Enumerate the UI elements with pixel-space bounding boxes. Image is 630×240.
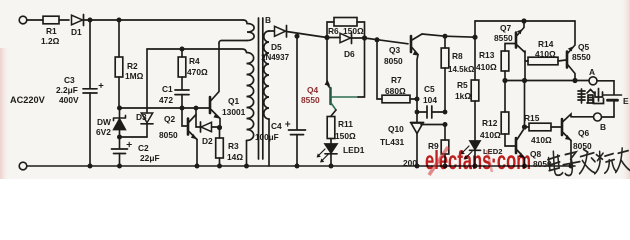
- svg-text:8050: 8050: [159, 130, 178, 140]
- Chinese caption: shao (burn): [594, 150, 617, 173]
- wire: primary tap to Q1 collector: [219, 41, 247, 44]
- shunt regulator Q10 TL431: [411, 112, 446, 166]
- transistor Q2: [188, 108, 197, 166]
- transformer core: [258, 18, 260, 159]
- wire: winding bottom to ground rail: [246, 141, 248, 167]
- svg-text:Q5: Q5: [578, 42, 590, 52]
- wire: positive output rail: [505, 80, 589, 82]
- svg-text:D2: D2: [202, 136, 213, 146]
- wire: A to battery E: [597, 81, 614, 95]
- svg-text:C2: C2: [138, 143, 149, 153]
- svg-text:R15: R15: [524, 113, 540, 123]
- svg-text:LED1: LED1: [343, 145, 365, 155]
- wire: [120, 136, 148, 138]
- capacitor C4 electrolytic: [286, 36, 306, 166]
- transistor Q3: [411, 34, 422, 99]
- diode D5: [275, 26, 286, 36]
- svg-text:D3: D3: [136, 112, 147, 122]
- Chinese caption: zi (child): [563, 152, 581, 176]
- node: Q1 emitter / R3 / D2 junction: [217, 125, 222, 130]
- svg-text:C3: C3: [64, 75, 75, 85]
- node: Q5 collector on output rail: [572, 78, 577, 83]
- transistor Q1: [210, 43, 220, 128]
- svg-text:A: A: [589, 67, 595, 77]
- svg-text:104: 104: [423, 95, 437, 105]
- svg-text:R12: R12: [482, 118, 498, 128]
- svg-text:8050: 8050: [384, 56, 403, 66]
- resistor R11: [327, 117, 335, 145]
- battery E: [604, 95, 622, 117]
- diode D1: [72, 15, 83, 25]
- resistor R5: [471, 80, 479, 140]
- diode D2: [196, 115, 218, 133]
- svg-text:2.2μF: 2.2μF: [56, 85, 78, 95]
- resistor R13: [501, 51, 509, 80]
- svg-text:470Ω: 470Ω: [187, 67, 208, 77]
- svg-text:DW: DW: [97, 117, 111, 127]
- node: Q7 emitter tap: [521, 18, 526, 23]
- svg-text:C5: C5: [424, 84, 435, 94]
- LED1: [317, 144, 337, 166]
- wire: [27, 19, 43, 21]
- node: C4 tap: [295, 34, 300, 39]
- node: C5 right: [443, 110, 448, 115]
- Chinese label: shuchu (output): [578, 89, 604, 104]
- watermark elecfans.com: [425, 145, 531, 175]
- svg-text:R8: R8: [452, 51, 463, 61]
- node: R3 ground: [217, 164, 222, 169]
- svg-text:B: B: [265, 15, 271, 25]
- svg-text:Q4: Q4: [307, 85, 319, 95]
- node: R13/R12/output rail junction: [502, 78, 507, 83]
- transformer T1 primary winding section 2 (feedback): [247, 53, 254, 141]
- svg-text:B: B: [600, 122, 606, 132]
- wire: battery to terminal B: [602, 116, 615, 118]
- node: LED1 ground: [329, 164, 334, 169]
- svg-text:14.5kΩ: 14.5kΩ: [448, 65, 475, 74]
- node: Q3 emitter / R7 node: [415, 97, 420, 102]
- svg-text:C1: C1: [162, 84, 173, 94]
- node: Q2 emitter on ground rail: [195, 164, 200, 169]
- svg-text:Q6: Q6: [578, 128, 590, 138]
- svg-text:100μF: 100μF: [255, 133, 279, 142]
- node: R4 tap on feedback line: [180, 47, 185, 52]
- svg-text:Q1: Q1: [228, 96, 240, 106]
- svg-text:1MΩ: 1MΩ: [125, 71, 144, 81]
- resistor R2: [115, 20, 123, 108]
- ground rail wire: [27, 165, 575, 167]
- AC input terminal top: [19, 16, 27, 24]
- node: C3 ground: [88, 164, 93, 169]
- wire: Q2 base: [182, 108, 187, 126]
- svg-text:8550: 8550: [494, 33, 513, 43]
- svg-text:8550: 8550: [301, 95, 320, 105]
- wire: R5 feed: [474, 37, 476, 80]
- svg-text:400V: 400V: [59, 95, 79, 105]
- transistor Q5: [567, 21, 575, 81]
- wire: riser to top output rail: [474, 21, 476, 37]
- transformer secondary winding: [264, 31, 269, 119]
- terminal B: [594, 113, 602, 121]
- node: Q8 emitter ground: [522, 164, 527, 169]
- Chinese caption: you (friend) partial: [615, 147, 630, 172]
- transformer T1 primary winding section 1: [243, 20, 254, 41]
- node: rectified DC rail junction at C3: [88, 18, 93, 23]
- resistor R4: [178, 49, 186, 90]
- resistor R3: [216, 128, 224, 167]
- capacitor C5: [417, 99, 445, 118]
- node: LED2 ground: [473, 164, 478, 169]
- node: C1/Q2 base junction: [180, 106, 185, 111]
- node: rail junction at R2: [117, 18, 122, 23]
- svg-text:410Ω: 410Ω: [480, 130, 501, 140]
- svg-text:R4: R4: [189, 56, 200, 66]
- svg-text:Q10: Q10: [388, 124, 404, 134]
- svg-text:R1: R1: [46, 26, 57, 36]
- resistor R15: [525, 123, 562, 131]
- node: R15/Q8 collector junction: [522, 124, 527, 129]
- svg-text:AC220V: AC220V: [10, 95, 46, 105]
- svg-text:410Ω: 410Ω: [531, 135, 552, 145]
- Chinese caption: fa (emit): [579, 149, 596, 174]
- capacitor C3: [83, 20, 103, 166]
- zener DW 6V2: [114, 108, 126, 137]
- wire: top output rail: [475, 20, 575, 22]
- wire: to Q3 base: [365, 38, 409, 44]
- diode D6: [327, 33, 365, 44]
- resistor R6 (box above diode D6): [327, 18, 365, 38]
- node: R8 tap: [443, 34, 448, 39]
- wire: Q7 collector riser: [524, 51, 526, 81]
- transistor Q6: [562, 114, 571, 166]
- svg-text:R5: R5: [457, 80, 468, 90]
- wire top rail: [84, 19, 244, 21]
- node: Q2 collector on base line: [194, 106, 199, 111]
- svg-text:C4: C4: [271, 121, 282, 131]
- svg-text:8050: 8050: [573, 141, 592, 151]
- svg-text:R2: R2: [127, 61, 138, 71]
- resistor R1: [43, 16, 59, 24]
- resistor R7: [377, 40, 417, 103]
- svg-text:472: 472: [159, 95, 173, 105]
- Chinese caption: dian (electric): [547, 151, 562, 176]
- svg-text:150Ω: 150Ω: [335, 131, 356, 141]
- node: Q6 emitter ground: [569, 164, 574, 169]
- svg-text:R6: R6: [328, 26, 339, 36]
- wire: Q3 collector rail: [422, 34, 475, 37]
- wire: feedback winding line: [147, 49, 247, 53]
- svg-text:1.2Ω: 1.2Ω: [41, 36, 60, 46]
- node: R6/D6 output node: [362, 35, 367, 40]
- LED2: [461, 141, 481, 166]
- wire: secondary top: [269, 30, 274, 32]
- resistor R14: [525, 57, 566, 65]
- svg-text:R3: R3: [228, 141, 239, 151]
- node: DW/C2/D3 node: [117, 135, 122, 140]
- svg-text:TL431: TL431: [380, 137, 405, 147]
- transistor Q7: [505, 21, 525, 53]
- node: Q1 base node: [117, 106, 122, 111]
- svg-text:R14: R14: [538, 39, 554, 49]
- AC input terminal bottom: [19, 162, 27, 170]
- resistor R9: [441, 125, 449, 167]
- node: R9 ground: [443, 164, 448, 169]
- transistor Q4 (optocoupler-colored): [325, 38, 365, 117]
- svg-text:13001: 13001: [222, 107, 246, 117]
- resistor R12: [501, 81, 509, 147]
- capacitor C1: [175, 90, 189, 108]
- node: C4 ground: [295, 164, 300, 169]
- node: rectified secondary node / R6 branch: [324, 35, 329, 40]
- node: winding ground: [244, 164, 249, 169]
- svg-text:8550: 8550: [572, 52, 591, 62]
- node: TL431 ground: [415, 164, 420, 169]
- svg-text:R13: R13: [479, 50, 495, 60]
- svg-text:R7: R7: [391, 75, 402, 85]
- node: C2 ground: [117, 164, 122, 169]
- node: R7 branch on base node: [375, 37, 380, 42]
- node: Q7 collector on output rail: [522, 78, 527, 83]
- paper background: [0, 0, 630, 179]
- svg-text:150Ω: 150Ω: [343, 26, 364, 36]
- svg-text:1kΩ: 1kΩ: [455, 91, 471, 101]
- svg-text:Q3: Q3: [389, 45, 401, 55]
- svg-text:22μF: 22μF: [140, 153, 160, 163]
- svg-text:200: 200: [403, 158, 417, 168]
- node: C5 left: [415, 110, 420, 115]
- svg-text:1N4937: 1N4937: [261, 53, 290, 62]
- svg-text:D5: D5: [271, 42, 282, 52]
- transistor Q8: [505, 130, 525, 167]
- svg-text:D1: D1: [71, 27, 82, 37]
- node: TL431 ref node: [443, 122, 448, 127]
- svg-text:Q2: Q2: [164, 114, 176, 124]
- terminal A: [589, 77, 597, 85]
- svg-text:R11: R11: [338, 119, 353, 129]
- svg-text:D6: D6: [344, 49, 355, 59]
- diode D3: [141, 49, 153, 137]
- resistor R8: [441, 36, 449, 112]
- wire: output rail to R15 node: [524, 81, 526, 128]
- svg-text:410Ω: 410Ω: [476, 62, 497, 72]
- svg-text:680Ω: 680Ω: [385, 86, 406, 96]
- svg-text:6V2: 6V2: [96, 127, 111, 137]
- svg-text:E: E: [623, 96, 629, 106]
- svg-text:410Ω: 410Ω: [535, 49, 556, 59]
- node: output riser junction: [472, 35, 477, 40]
- wire: secondary bottom to ground rail: [268, 119, 270, 166]
- svg-text:Q8: Q8: [530, 149, 542, 159]
- svg-text:Q7: Q7: [500, 23, 512, 33]
- wire: B to Q6 collector: [571, 116, 594, 118]
- wire: base node to Q1: [120, 107, 210, 109]
- svg-text:14Ω: 14Ω: [227, 152, 243, 162]
- capacitor C2 electrolytic: [112, 137, 132, 166]
